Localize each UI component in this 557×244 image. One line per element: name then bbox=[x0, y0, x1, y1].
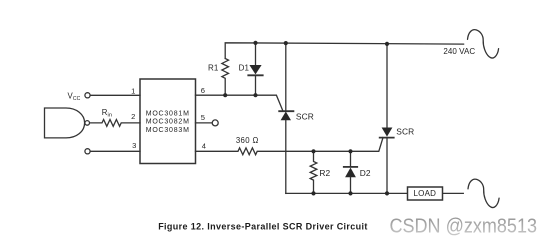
resistor 360ohm on pin4 bbox=[196, 138, 384, 155]
svg-text:2: 2 bbox=[131, 112, 135, 121]
svg-text:MOC3083M: MOC3083M bbox=[146, 127, 190, 134]
svg-text:MOC3081M: MOC3081M bbox=[146, 110, 190, 117]
svg-text:5: 5 bbox=[201, 113, 205, 122]
svg-text:R1: R1 bbox=[208, 63, 219, 72]
junction D2 gate bbox=[348, 149, 352, 153]
wire pin6 bbox=[196, 95, 284, 111]
svg-text:SCR: SCR bbox=[296, 111, 314, 121]
diode D2 bbox=[344, 151, 357, 193]
resistor R1 bbox=[222, 59, 229, 96]
svg-text:Figure 12. Inverse-Parallel SC: Figure 12. Inverse-Parallel SCR Driver C… bbox=[158, 222, 368, 232]
svg-text:D2: D2 bbox=[360, 168, 371, 178]
wire Vcc to pin1 bbox=[90, 94, 140, 96]
junction SCR2 bottom bbox=[385, 191, 389, 195]
diode D1 bbox=[248, 43, 262, 95]
svg-text:6: 6 bbox=[201, 86, 205, 95]
junction R2 gate bbox=[311, 149, 315, 153]
top rail wire bbox=[225, 43, 463, 59]
junction R2 bottom bbox=[311, 191, 315, 195]
svg-text:MOC3082M: MOC3082M bbox=[146, 119, 190, 126]
resistor Rin bbox=[90, 120, 140, 127]
junction R1 pin6 bbox=[223, 93, 227, 97]
LOAD box bbox=[408, 187, 443, 200]
resistor R2 bbox=[310, 151, 317, 193]
terminal pin5 bbox=[212, 120, 218, 126]
bottom rail wire bbox=[286, 192, 408, 194]
svg-text:LOAD: LOAD bbox=[414, 189, 437, 198]
junction D1 pin6 bbox=[253, 93, 257, 97]
AC source bottom squiggle bbox=[468, 179, 499, 207]
junction D1 top bbox=[253, 41, 257, 45]
svg-text:1: 1 bbox=[131, 86, 135, 95]
wire LOAD to source bbox=[443, 192, 464, 194]
svg-text:CSDN @zxm8513: CSDN @zxm8513 bbox=[390, 216, 538, 238]
junction D2 bottom bbox=[348, 191, 352, 195]
junction dots bbox=[223, 41, 389, 196]
svg-text:D1: D1 bbox=[239, 63, 250, 72]
svg-text:SCR: SCR bbox=[396, 127, 414, 137]
terminal pin3 bbox=[85, 149, 90, 154]
terminal Vcc bbox=[85, 93, 90, 98]
AC source top squiggle bbox=[468, 30, 499, 58]
nand gate U1 bbox=[45, 108, 85, 138]
svg-text:R2: R2 bbox=[319, 168, 330, 178]
junction SCR2 top bbox=[385, 42, 389, 46]
junction SCR1 top bbox=[284, 41, 288, 45]
svg-text:240 VAC: 240 VAC bbox=[443, 47, 475, 56]
svg-text:4: 4 bbox=[202, 141, 206, 150]
svg-text:3: 3 bbox=[132, 141, 136, 150]
svg-text:360 Ω: 360 Ω bbox=[236, 136, 259, 145]
wire pin5 bbox=[196, 122, 213, 124]
SCR Q2 bbox=[380, 44, 394, 194]
output bubble of U1 bbox=[85, 121, 90, 126]
wire pin3 bbox=[90, 150, 140, 152]
optocoupler U2 box bbox=[140, 79, 196, 164]
SCR Q1 bbox=[279, 43, 293, 193]
